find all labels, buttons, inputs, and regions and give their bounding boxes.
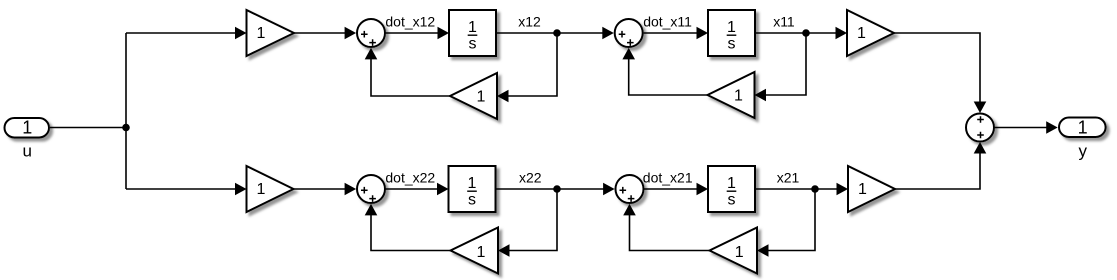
svg-text:x12: x12: [518, 14, 541, 30]
svg-text:1: 1: [477, 89, 486, 106]
svg-text:1: 1: [735, 244, 744, 261]
svg-text:s: s: [468, 191, 476, 208]
svg-text:1: 1: [1078, 118, 1088, 138]
svg-text:y: y: [1078, 142, 1087, 161]
svg-text:1: 1: [858, 181, 867, 198]
svg-text:1: 1: [22, 118, 32, 138]
svg-text:1: 1: [257, 181, 266, 198]
svg-text:s: s: [728, 191, 736, 208]
svg-text:u: u: [22, 142, 31, 161]
svg-text:1: 1: [727, 19, 736, 36]
svg-text:1: 1: [857, 25, 866, 42]
svg-text:dot_x11: dot_x11: [643, 14, 692, 30]
svg-text:x11: x11: [773, 14, 795, 30]
svg-text:1: 1: [468, 175, 477, 192]
svg-text:x21: x21: [777, 170, 800, 186]
svg-text:s: s: [728, 35, 736, 52]
svg-text:1: 1: [257, 25, 266, 42]
svg-text:dot_x22: dot_x22: [385, 170, 435, 186]
svg-text:1: 1: [468, 19, 477, 36]
svg-text:s: s: [469, 35, 477, 52]
svg-text:1: 1: [734, 88, 743, 105]
svg-text:dot_x21: dot_x21: [643, 170, 693, 186]
svg-text:dot_x12: dot_x12: [385, 14, 435, 30]
svg-text:1: 1: [477, 244, 486, 261]
svg-text:x22: x22: [519, 170, 542, 186]
svg-text:1: 1: [727, 175, 736, 192]
